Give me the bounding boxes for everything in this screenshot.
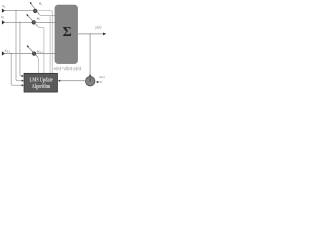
arrowhead into error junction — [89, 75, 91, 77]
svg-text:w1: w1 — [39, 2, 43, 7]
svg-text:e(n)=d(n)-y(n): e(n)=d(n)-y(n) — [54, 67, 82, 72]
junction on output — [90, 33, 91, 34]
arrowhead tap row1 into LMS left — [22, 80, 24, 82]
wire M1 product to sigma with tap down to LMS — [39, 14, 55, 16]
svg-text:x1: x1 — [1, 3, 6, 9]
weight arrow A3 through M3 — [27, 45, 29, 48]
e(n) arrowhead into LMS — [58, 80, 60, 82]
multiplier M1 — [33, 9, 37, 13]
tap junction row1 — [15, 10, 16, 11]
arrowhead tap row3 into LMS left — [22, 84, 24, 86]
control line from A3 tail down to LMS top — [38, 57, 39, 74]
multiplier M3 — [32, 52, 36, 56]
wire row2 input — [5, 21, 32, 23]
input terminal triangle T1 — [2, 9, 5, 13]
svg-text:x2: x2 — [0, 14, 5, 20]
wire M2 product to sigma — [36, 22, 55, 24]
wire row1 input — [5, 10, 33, 12]
wire d(n) into junction — [98, 81, 102, 83]
tap junction row2 — [19, 22, 20, 23]
wire output y(n) — [78, 33, 104, 35]
input terminal triangle T3 — [2, 51, 5, 55]
svg-text:LMS Update: LMS Update — [30, 77, 54, 84]
wire e(n) from junction to LMS block — [60, 80, 86, 82]
junction internal mark — [89, 78, 91, 82]
weight arrow A2 through M2 — [26, 14, 28, 17]
wire tap row3 down to LMS left — [11, 54, 22, 86]
wire feedback branch down to error junction — [89, 34, 91, 75]
svg-text:Σ: Σ — [63, 24, 72, 39]
d(n) arrowhead — [96, 81, 98, 83]
control line from A2 tail down to LMS top — [37, 26, 44, 73]
svg-text:d(n): d(n) — [99, 75, 106, 79]
svg-text:Algorithm: Algorithm — [32, 84, 50, 90]
tap junction row3 — [11, 53, 12, 54]
input terminal triangle T2 — [2, 20, 5, 24]
summation block U1 — [55, 5, 78, 64]
svg-text:y(n): y(n) — [94, 26, 102, 30]
wire tap row2 down to LMS left — [20, 22, 22, 76]
weight arrow A1 through M1 — [30, 2, 32, 5]
multiplier M2 — [32, 21, 36, 25]
arrowhead tap row2 into LMS left — [22, 75, 24, 77]
LMS update algorithm block U2 — [24, 73, 58, 92]
wire tap row1 down to LMS left — [16, 11, 22, 81]
error summing junction — [86, 77, 95, 86]
wire row3 input through M3 to sigma — [5, 53, 55, 55]
output arrowhead — [103, 33, 106, 36]
wire row1 tap from multiplier top to LMS top — [37, 11, 52, 74]
svg-text:wN-1: wN-1 — [37, 49, 43, 54]
svg-text:w2: w2 — [37, 16, 42, 21]
svg-text:xN-1: xN-1 — [4, 48, 11, 54]
